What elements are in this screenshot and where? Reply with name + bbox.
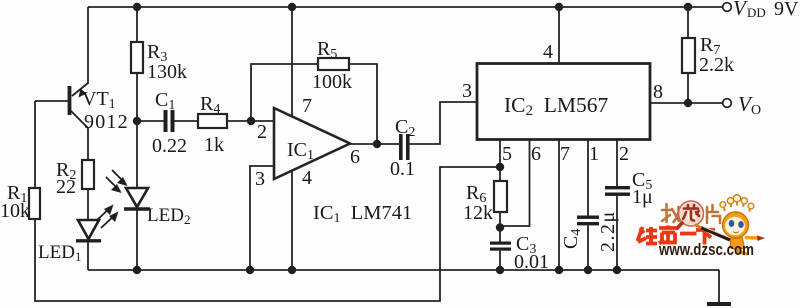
capacitor C2 — [399, 134, 410, 160]
resistor R7 — [682, 38, 695, 73]
wire C5 to rail — [616, 196, 618, 270]
LED2 incoming light arrows — [106, 170, 128, 193]
wire R3 to node — [136, 73, 138, 121]
transistor Q VT1 — [68, 83, 88, 128]
svg-text:1μ: 1μ — [632, 186, 653, 208]
resistor R5 — [318, 58, 349, 70]
capacitor C4 — [577, 216, 599, 226]
svg-text:9V: 9V — [774, 0, 799, 20]
node dot R3 C1 LED2 — [133, 117, 141, 125]
node dot R6 C3 pin6 — [496, 223, 504, 231]
svg-text:0.22: 0.22 — [152, 135, 187, 157]
svg-text:1k: 1k — [204, 134, 224, 156]
IC2 pin 4 wire — [558, 7, 560, 64]
resistor R6 — [494, 181, 507, 212]
wire R7 top — [687, 7, 689, 38]
wire C3 to rail — [499, 251, 501, 270]
svg-text:0.1: 0.1 — [390, 158, 415, 180]
svg-text:10k: 10k — [0, 200, 30, 222]
svg-text:www.dzsc.com: www.dzsc.com — [658, 240, 754, 259]
svg-text:9012: 9012 — [84, 111, 129, 133]
svg-text:IC2 LM567: IC2 LM567 — [504, 93, 609, 119]
watermark mascot — [696, 195, 765, 256]
watermark magnifier handle — [677, 223, 682, 229]
pin 3 wire — [250, 166, 274, 270]
LED LED2 — [124, 188, 150, 270]
IC2 pin 8 wire — [650, 102, 722, 104]
wire R2 to LED1 — [87, 189, 89, 220]
svg-text:6: 6 — [531, 143, 541, 165]
node dot gnd pin3 opamp — [246, 266, 254, 274]
LED1 emission arrows — [96, 205, 119, 229]
terminal VO — [723, 99, 732, 108]
svg-text:7: 7 — [302, 95, 312, 117]
node dot rail R7 — [684, 3, 692, 11]
wire feedback right — [349, 64, 377, 144]
svg-text:8: 8 — [653, 81, 663, 103]
wire R3 drop — [136, 7, 138, 42]
pin 4 wire — [291, 170, 293, 270]
wire base to R1 — [34, 101, 36, 188]
wire C4 to rail — [587, 226, 589, 271]
node dot rail pin7 — [288, 3, 296, 11]
wire R7 bottom — [687, 73, 689, 103]
svg-text:3: 3 — [255, 168, 265, 190]
svg-text:LED2: LED2 — [147, 205, 190, 227]
wire node to C1 — [137, 120, 164, 122]
svg-text:7: 7 — [560, 143, 570, 165]
svg-text:2: 2 — [257, 121, 267, 143]
svg-text:12k: 12k — [463, 202, 493, 224]
svg-text:22: 22 — [56, 176, 76, 198]
wire emitter drop — [87, 7, 89, 84]
capacitor C5 — [605, 186, 630, 196]
wire collector — [87, 128, 89, 160]
svg-text:O: O — [751, 103, 761, 118]
watermark char pian (sheet) outlined — [707, 205, 720, 223]
node dot gnd pin7 IC2 — [555, 266, 563, 274]
node dot gnd C5 — [613, 266, 621, 274]
wire feedback left — [251, 64, 318, 121]
svg-text:100k: 100k — [312, 71, 352, 93]
svg-text:4: 4 — [302, 167, 312, 189]
wire R6 to C3 — [499, 212, 501, 242]
node dot gnd pin4 opamp — [288, 266, 296, 274]
svg-text:2: 2 — [619, 143, 629, 165]
watermark logo group — [638, 195, 766, 259]
svg-text:R5: R5 — [317, 38, 337, 62]
terminal VDD — [723, 3, 732, 12]
svg-text:R4: R4 — [200, 93, 220, 117]
wire ground rail — [88, 269, 719, 271]
capacitor C3 — [490, 242, 511, 251]
svg-text:3: 3 — [462, 80, 472, 102]
resistor R1 — [29, 188, 40, 219]
watermark text weikuyixia red — [638, 226, 716, 245]
svg-text:C2: C2 — [395, 116, 415, 140]
svg-text:2.2k: 2.2k — [699, 54, 734, 76]
node dot gnd C4 — [584, 266, 592, 274]
node dot gnd C3 — [496, 266, 504, 274]
node dot gnd LED2 — [133, 266, 141, 274]
svg-text:C4: C4 — [560, 229, 584, 249]
LED LED1 — [76, 220, 101, 270]
node dot pin5 R6 — [496, 163, 504, 171]
IC U2 LM567 box — [477, 64, 650, 140]
watermark char xin (chip) inside ring — [683, 205, 699, 221]
wire R1 bottom long return to pin5 node — [35, 167, 500, 301]
svg-text:5: 5 — [502, 143, 512, 165]
svg-text:130k: 130k — [147, 61, 187, 83]
wire rail to ground — [718, 270, 720, 303]
wire top VDD rail — [88, 6, 722, 8]
IC2 pin 7 wire — [558, 140, 560, 271]
svg-text:C1: C1 — [155, 89, 175, 113]
pin 7 wire — [291, 7, 293, 117]
ground — [707, 302, 731, 306]
wire R4 to opamp — [227, 120, 274, 122]
IC2 pin 5 wire — [499, 140, 501, 182]
resistor R3 — [131, 42, 143, 73]
IC2 pin 2 wire — [616, 140, 618, 187]
svg-text:6: 6 — [350, 146, 360, 168]
svg-text:DD: DD — [747, 5, 766, 20]
capacitor C1 — [164, 110, 175, 132]
node dot rail IC2 pin4 — [555, 3, 563, 11]
IC2 pin 6 wire — [500, 140, 530, 227]
wire C1 to R4 — [175, 120, 199, 122]
op-amp U IC1 — [274, 108, 350, 179]
node dot rail R3 — [133, 3, 141, 11]
svg-text:V: V — [733, 0, 748, 20]
svg-text:2.2μ: 2.2μ — [597, 210, 619, 252]
watermark magnifier ring — [679, 201, 704, 226]
node dot opamp output — [373, 140, 381, 148]
watermark char zhao (find) outlined — [662, 204, 679, 222]
wire node to LED2 — [136, 121, 138, 188]
IC2 pin 1 wire — [587, 140, 589, 217]
svg-text:IC1: IC1 — [287, 139, 314, 163]
node dot R7 VO — [684, 99, 692, 107]
svg-text:4: 4 — [543, 41, 553, 63]
resistor R4 — [198, 114, 227, 128]
wire base — [35, 100, 68, 102]
svg-text:LED1: LED1 — [38, 242, 81, 264]
svg-text:IC1 LM741: IC1 LM741 — [313, 202, 412, 226]
svg-text:1: 1 — [589, 143, 599, 165]
wire C2 to IC2 pin3 — [410, 102, 477, 144]
node dot opamp input — [247, 117, 255, 125]
wire opamp output — [350, 143, 399, 145]
svg-text:VT1: VT1 — [82, 88, 116, 112]
resistor R2 — [82, 160, 94, 189]
